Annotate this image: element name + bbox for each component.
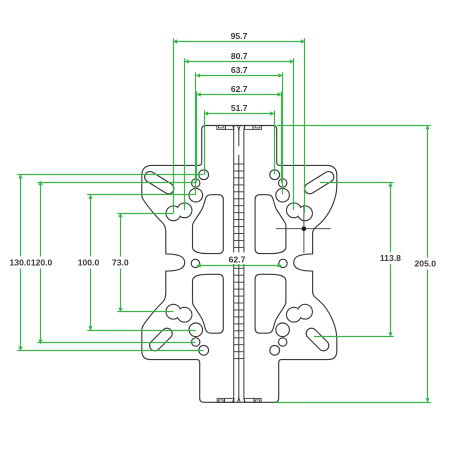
dim 120.0 — [37, 182, 195, 184]
reference crosshair — [276, 228, 331, 230]
lower-right kidney cutout — [255, 274, 286, 333]
lower-left slot — [147, 326, 174, 353]
svg-text:80.7: 80.7 — [231, 51, 248, 61]
svg-text:120.0: 120.0 — [31, 258, 53, 268]
dim 205.0 — [277, 125, 431, 127]
svg-text:100.0: 100.0 — [78, 258, 100, 268]
svg-text:95.7: 95.7 — [231, 31, 248, 41]
dim 62.7 top — [197, 94, 282, 96]
upper-right kidney cutout — [255, 195, 286, 254]
upper-right wing hole cluster — [270, 170, 313, 221]
dim 130.0 — [17, 174, 203, 176]
hole left (62.7 ref) — [191, 259, 199, 267]
upper-left wing hole cluster — [166, 170, 209, 221]
lower-left kidney cutout — [193, 274, 224, 333]
svg-text:51.7: 51.7 — [231, 103, 248, 113]
central spine ladder — [232, 126, 245, 402]
dim 95.7 — [173, 41, 305, 43]
svg-text:130.0: 130.0 — [10, 258, 32, 268]
upper-left kidney cutout — [193, 195, 224, 254]
reference dot — [302, 226, 307, 231]
bottom edge tabs — [217, 398, 234, 402]
lower-right wing hole cluster — [270, 304, 313, 355]
hole right (62.7 ref) — [279, 259, 287, 267]
dim 100.0 — [87, 194, 196, 196]
part outer silhouette — [142, 126, 337, 403]
lower-right slot — [304, 326, 331, 353]
dim 63.7 — [196, 75, 282, 77]
top edge tabs — [217, 126, 234, 130]
svg-text:63.7: 63.7 — [231, 65, 248, 75]
upper-left slot — [143, 170, 176, 196]
dim 80.7 — [185, 61, 294, 63]
svg-text:205.0: 205.0 — [415, 259, 437, 269]
dim 113.8 — [320, 182, 394, 184]
svg-text:62.7: 62.7 — [229, 255, 246, 265]
dim 62.7 middle — [197, 265, 282, 267]
svg-text:73.0: 73.0 — [112, 258, 129, 268]
svg-text:62.7: 62.7 — [231, 84, 248, 94]
upper-right slot — [303, 170, 336, 196]
dim 73.0 — [117, 213, 173, 215]
dim 51.7 — [204, 113, 274, 115]
lower-left wing hole cluster — [166, 304, 209, 355]
svg-text:113.8: 113.8 — [380, 253, 401, 263]
